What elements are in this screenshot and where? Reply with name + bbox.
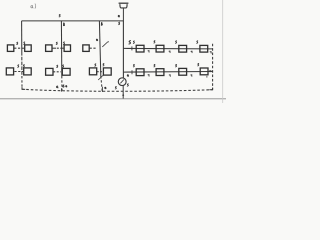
arrow mark at feeder C row1 (102, 42, 109, 47)
load box L9 row2 (62, 68, 70, 75)
mark below wire after R6 (169, 75, 170, 77)
load box L8 row2 (46, 68, 53, 75)
load box R5 row2 (136, 69, 144, 76)
label above R2 (154, 41, 155, 43)
label above R3 (176, 41, 177, 43)
dashed tap L10 to feeder C (97, 71, 104, 73)
label right of feeder A row1 (24, 42, 25, 44)
dashed return line bottom (22, 89, 213, 91)
label left of feeder B row1 (56, 42, 57, 44)
wire feeder A lower dashed (21, 52, 23, 76)
label left of feeder C row1 (96, 39, 97, 41)
corner feeder A to return (22, 87, 25, 89)
junction dot on lower stem (122, 94, 124, 96)
junction tick row1 right start (131, 46, 133, 50)
load box L7 row2 (24, 68, 32, 75)
dashed return riser right (212, 44, 214, 90)
load box R1 row1 (136, 45, 144, 52)
baseline rule (0, 98, 226, 100)
load box R7 row2 (179, 68, 187, 75)
label right of feeder B row2 (63, 65, 64, 67)
load box R2 row1 (156, 45, 164, 52)
mark below wire after R3 (191, 51, 192, 53)
motor M circle (118, 78, 126, 86)
dashed tap L8 to feeder B (53, 71, 61, 73)
wire stem below motor (122, 86, 124, 99)
wire stem from plug to bus (122, 8, 124, 21)
junction tick row2 right start (131, 70, 133, 74)
node label below bus left of stem (119, 22, 120, 25)
label left of feeder A row2 (18, 65, 19, 67)
load box L6 row2 (6, 68, 13, 75)
junction mark right of R8 (209, 70, 211, 72)
load box R4 row1 (200, 45, 208, 52)
junction tick on return at feeder B (61, 88, 63, 91)
wire row2 right (123, 71, 212, 74)
wire feeder B upper (60, 21, 62, 76)
connector X1 socket cup (120, 4, 127, 8)
label above R6 (154, 64, 155, 66)
node label a at return feeder B (56, 86, 58, 88)
wire row1 right (123, 47, 212, 50)
tap feeder A to L2 (22, 47, 25, 49)
load box L1 row1 (7, 45, 13, 52)
label above R4 (197, 41, 198, 43)
wire top bus (22, 20, 124, 22)
label above R5 (133, 64, 134, 66)
corner riser to return right (209, 88, 212, 90)
page edge line right (222, 0, 224, 103)
load box R8 row2 (200, 68, 208, 75)
label left of motor (115, 87, 116, 89)
wire feeder C lower dashed (101, 76, 102, 91)
connector X1 plug bar (119, 2, 129, 4)
node label b at return feeder B (63, 85, 64, 87)
motor M rotor slash (120, 80, 124, 84)
mark below wire after R2 (169, 51, 170, 53)
node label at return feeder C (105, 87, 106, 89)
label right of feeder C row2 (103, 64, 104, 66)
tap L3 to feeder B solid part (52, 47, 56, 49)
load box L11 row2 (103, 68, 111, 75)
label left of feeder A row1 (17, 42, 18, 44)
dashed tap L1 to feeder A (14, 47, 21, 49)
mark below wire after R7 (191, 75, 192, 77)
node label at row1 right start (129, 41, 130, 44)
node label e at return feeder B (66, 86, 67, 87)
dashed tap L6 to feeder A (14, 71, 21, 73)
label right of feeder B row1 (63, 42, 64, 44)
tap feeder B to L9 (61, 71, 64, 73)
label above right of motor (127, 75, 128, 77)
mark below wire after R5 (148, 75, 149, 77)
node label v below bus right of feeder B (63, 23, 64, 26)
load box R3 row1 (179, 45, 187, 52)
arrow mark at feeder C row2 (98, 76, 103, 80)
node label above bus left of stem (118, 15, 119, 17)
load box L5 row1 (83, 45, 89, 52)
label left of feeder B row2 (57, 65, 58, 67)
load box L2 row1 (25, 45, 32, 52)
label right of feeder A row2 (23, 65, 24, 67)
tap L3 to feeder B dashed part (57, 47, 62, 49)
wire feeder A upper (21, 21, 23, 52)
label above R7 (176, 64, 177, 66)
load box L4 row1 (64, 45, 70, 52)
dashed tap L5 toward feeder C (90, 47, 96, 49)
label left of feeder C row2 (95, 64, 96, 66)
junction tick on return at feeder C (101, 87, 103, 92)
label above R8 (198, 63, 199, 65)
tick below R8 (206, 76, 208, 78)
wire feeder C upper (99, 21, 100, 76)
label right of motor (127, 84, 128, 86)
tap feeder B to L4 (62, 47, 64, 49)
mark below wire after R4 (210, 52, 211, 54)
tap feeder A to L7 (22, 71, 24, 73)
label above R1 (133, 41, 134, 43)
mark below wire after R1 (148, 51, 149, 53)
figure label a) (31, 6, 33, 8)
load box L3 row1 (46, 45, 52, 52)
load box L10 row2 (89, 68, 96, 75)
load box R6 row2 (156, 69, 164, 76)
node label at feeder B top (59, 14, 60, 17)
wire feeder B lower dashed (61, 76, 63, 91)
node label below bus right of feeder C (101, 23, 102, 26)
wire main stem from bus to motor (122, 21, 124, 78)
